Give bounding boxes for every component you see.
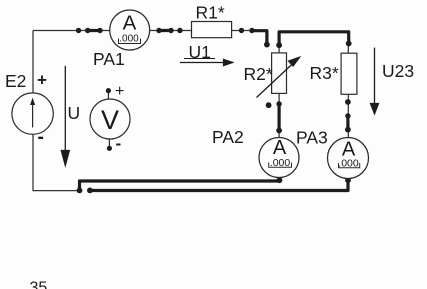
svg-text:.000: .000 [119, 34, 139, 45]
svg-text:A: A [123, 12, 137, 35]
svg-text:U1: U1 [189, 42, 211, 62]
svg-text:PA2: PA2 [212, 127, 244, 147]
svg-text:PA1: PA1 [93, 49, 125, 69]
svg-text:-: - [38, 127, 44, 148]
svg-text:A: A [273, 137, 287, 159]
svg-text:R2*: R2* [244, 64, 273, 84]
svg-text:V: V [101, 105, 119, 135]
svg-text:U: U [68, 103, 81, 123]
svg-text:35: 35 [30, 280, 48, 289]
svg-text:+: + [37, 71, 47, 90]
svg-text:U23: U23 [382, 61, 414, 81]
svg-text:R3*: R3* [310, 63, 339, 83]
svg-text:-: - [116, 134, 122, 153]
svg-text:R1*: R1* [196, 3, 225, 23]
svg-text:PA3: PA3 [296, 128, 328, 148]
svg-text:E2: E2 [5, 71, 26, 91]
svg-text:+: + [115, 83, 124, 100]
